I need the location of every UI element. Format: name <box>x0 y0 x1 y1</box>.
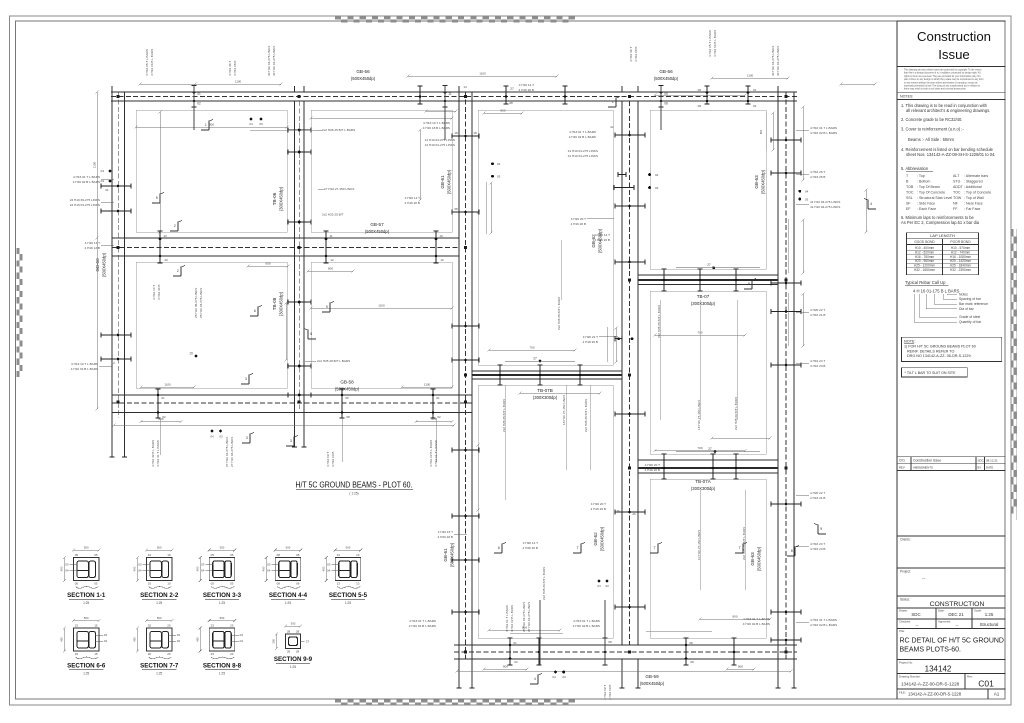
svg-text:4 H16 21 B: 4 H16 21 B <box>810 496 825 500</box>
junction marks at beam crossings <box>116 95 119 98</box>
svg-text:03: 03 <box>177 633 181 637</box>
svg-text:them may result in both a civi: them may result in both a civil claim an… <box>904 88 967 91</box>
beam GB-62 <box>621 101 623 645</box>
svg-text:A1: A1 <box>994 692 1000 697</box>
svg-text:1100: 1100 <box>164 383 171 387</box>
svg-text:27: 27 <box>533 357 537 361</box>
svg-text:4 H16 23 B: 4 H16 23 B <box>810 364 825 368</box>
svg-text:Title:: Title: <box>899 629 905 633</box>
svg-text:SF: SF <box>906 202 911 206</box>
svg-text:27 H10 03-275 LINKS: 27 H10 03-275 LINKS <box>522 602 526 632</box>
svg-text:NF: NF <box>953 202 959 206</box>
svg-text:5. Abbreviation: 5. Abbreviation <box>901 166 929 171</box>
svg-text:FILE:: FILE: <box>899 691 906 695</box>
svg-text:Drawing Number:: Drawing Number: <box>899 675 921 679</box>
dots below GB-59 <box>554 671 557 674</box>
svg-text:4 H16 02 B L BARS: 4 H16 02 B L BARS <box>810 131 837 135</box>
svg-text:3: 3 <box>290 439 292 443</box>
svg-text:04: 04 <box>497 162 501 166</box>
cell E vertical dim <box>485 182 487 234</box>
svg-text:27 H10 27-150 LINKS: 27 H10 27-150 LINKS <box>324 187 354 191</box>
svg-text:Approved:: Approved: <box>938 620 951 624</box>
extra ticks TB-06 <box>288 127 311 132</box>
svg-text:(300X300dp): (300X300dp) <box>533 395 558 400</box>
ticks on GB-61 <box>452 133 479 138</box>
svg-text:500: 500 <box>157 546 162 550</box>
svg-text:H25 - 1200mm: H25 - 1200mm <box>914 264 935 268</box>
dim bracket left of GB-62 <box>606 327 608 362</box>
extra ticks top beam <box>417 86 422 104</box>
svg-text:(500X450dp): (500X450dp) <box>102 252 107 277</box>
svg-text:REV: REV <box>899 466 905 470</box>
svg-text:14: 14 <box>463 85 467 89</box>
beam TB-07A rebar line <box>638 467 778 469</box>
svg-text:expressly permitted by law. Th: expressly permitted by law. The doing of… <box>904 85 981 88</box>
svg-text:H16 - 760mm: H16 - 760mm <box>915 255 935 259</box>
svg-text:9: 9 <box>326 305 328 309</box>
svg-text:4 H16 01 T L BARS: 4 H16 01 T L BARS <box>409 619 436 623</box>
beam GB-58 bottom left block <box>112 394 472 396</box>
svg-text:02: 02 <box>437 415 441 419</box>
svg-text:9: 9 <box>820 527 822 531</box>
svg-text:4 H16 32 B L BARS: 4 H16 32 B L BARS <box>151 440 155 467</box>
svg-text:SECTION 4-4: SECTION 4-4 <box>269 592 308 599</box>
svg-text:04: 04 <box>327 569 331 573</box>
svg-text:27: 27 <box>708 447 712 451</box>
svg-text:4 H16 02 B L BARS: 4 H16 02 B L BARS <box>73 180 100 184</box>
svg-text:27 H10 04-275 LINKS: 27 H10 04-275 LINKS <box>225 437 229 467</box>
svg-text:(300X450dp): (300X450dp) <box>279 186 284 211</box>
svg-text:H10 - 570mm: H10 - 570mm <box>951 246 971 250</box>
svg-text:450: 450 <box>195 566 199 571</box>
svg-text:500: 500 <box>220 616 225 620</box>
svg-text:28: 28 <box>287 649 291 653</box>
svg-text:500: 500 <box>84 546 89 550</box>
svg-text:4 H16 13 T: 4 H16 13 T <box>85 241 100 245</box>
svg-text:1:25: 1:25 <box>219 601 225 605</box>
svg-text:: Top of Concrete: : Top of Concrete <box>964 191 991 195</box>
svg-text:3: 3 <box>246 436 248 440</box>
NOTE box <box>902 337 1002 361</box>
svg-text:GB-63: GB-63 <box>750 552 755 566</box>
svg-text:18: 18 <box>473 131 477 135</box>
beam TB-07 rebar line <box>638 279 778 281</box>
svg-text:08: 08 <box>608 640 612 644</box>
svg-text:18: 18 <box>454 131 458 135</box>
svg-text:NOTE:: NOTE: <box>904 340 916 344</box>
svg-text:32 H10 04-275 LINKS: 32 H10 04-275 LINKS <box>776 46 780 76</box>
svg-text:02: 02 <box>753 104 757 108</box>
SECTION 6-6 <box>73 628 99 651</box>
svg-text:12: 12 <box>440 258 444 262</box>
svg-text:: Top of Wall: : Top of Wall <box>964 196 984 200</box>
svg-text:4 H16 06 B L BARS: 4 H16 06 B L BARS <box>713 30 717 57</box>
svg-text:1) FOR H/T 5C GROUND BEAMS PLO: 1) FOR H/T 5C GROUND BEAMS PLOT 60 <box>904 345 976 349</box>
svg-text:4 H16 36 T: 4 H16 36 T <box>228 61 232 76</box>
svg-text:AMENDMENTS: AMENDMENTS <box>913 466 933 470</box>
svg-text:Notes: Notes <box>959 293 968 297</box>
svg-text:6: 6 <box>498 546 500 550</box>
svg-text:20: 20 <box>167 652 171 656</box>
svg-text:04: 04 <box>201 569 205 573</box>
cell top-left boundary <box>136 110 287 232</box>
svg-text:BEAMS PLOTS-60.: BEAMS PLOTS-60. <box>900 647 962 654</box>
svg-text:: Additional: : Additional <box>964 185 982 189</box>
svg-text:(500X450dp): (500X450dp) <box>654 76 679 81</box>
svg-text:SECTION 6-6: SECTION 6-6 <box>67 663 106 670</box>
svg-text:08: 08 <box>509 101 513 105</box>
svg-text:Project No:: Project No: <box>899 661 913 665</box>
svg-text:(500X450dp): (500X450dp) <box>640 681 665 686</box>
svg-text:4 H16 20 T: 4 H16 20 T <box>591 502 606 506</box>
title row <box>897 628 1006 630</box>
svg-text:: Side Face: : Side Face <box>917 202 935 206</box>
cell right-upper-left boundary <box>478 110 613 365</box>
revision rows <box>897 456 1006 458</box>
svg-text:134142-A-ZZ-00-DR-S-1228: 134142-A-ZZ-00-DR-S-1228 <box>901 682 960 687</box>
svg-text:Bar mark reference: Bar mark reference <box>959 302 988 306</box>
svg-text:134142-A-ZZ-00-DR-S-1228: 134142-A-ZZ-00-DR-S-1228 <box>908 692 962 697</box>
svg-text:600: 600 <box>265 262 270 266</box>
svg-text:450: 450 <box>59 637 63 642</box>
svg-text:: Structural Slab Level: : Structural Slab Level <box>917 196 952 200</box>
svg-text:02: 02 <box>610 125 614 129</box>
svg-text:03: 03 <box>655 186 659 190</box>
drawing number row <box>897 673 1006 675</box>
svg-text:Construction Issue: Construction Issue <box>913 459 941 463</box>
svg-text:03: 03 <box>138 563 142 567</box>
svg-text:DATE: DATE <box>986 466 993 470</box>
svg-text:04: 04 <box>210 435 214 439</box>
svg-text:11: 11 <box>329 234 332 238</box>
svg-text:4 H16 09 B: 4 H16 09 B <box>331 452 335 467</box>
svg-text:EF: EF <box>906 207 911 211</box>
svg-text:20: 20 <box>148 652 152 656</box>
svg-text:04: 04 <box>655 173 659 177</box>
svg-text:Grade of steel: Grade of steel <box>959 315 981 319</box>
svg-text:26: 26 <box>616 509 620 513</box>
svg-text:TOB: TOB <box>906 185 914 189</box>
svg-text:04: 04 <box>138 569 142 573</box>
bottom dimension line GB-58 <box>114 424 454 426</box>
svg-text:Spacing of bar: Spacing of bar <box>959 297 982 301</box>
svg-text:4 H16 01 T L BARS: 4 H16 01 T L BARS <box>73 175 100 179</box>
bar callout ticks on beams <box>191 86 196 108</box>
cell right-lower-left boundary <box>478 385 613 638</box>
SECTION 3-3 <box>209 558 235 581</box>
svg-text:4 H16 02 B L BARS: 4 H16 02 B L BARS <box>510 605 514 632</box>
SECTION 7-7 <box>146 628 172 651</box>
svg-text:28: 28 <box>296 630 300 634</box>
svg-text:08: 08 <box>277 581 281 585</box>
cell bottom-mid boundary <box>311 262 452 388</box>
left dimension lines <box>96 92 98 238</box>
svg-text:Beams :- All Side : 50mm: Beams :- All Side : 50mm <box>908 137 955 142</box>
svg-text:2. Concrete grade to be RC32/4: 2. Concrete grade to be RC32/40. <box>901 117 962 122</box>
title block frame <box>896 21 898 699</box>
svg-text:1100: 1100 <box>93 161 97 168</box>
svg-text:08.12.21: 08.12.21 <box>986 459 998 463</box>
svg-text:03: 03 <box>267 563 271 567</box>
svg-text:ALT: ALT <box>953 174 960 178</box>
svg-text:03: 03 <box>104 633 108 637</box>
svg-text:500: 500 <box>220 546 225 550</box>
svg-text:H32 - 2350mm: H32 - 2350mm <box>950 268 971 272</box>
svg-text:05: 05 <box>75 581 79 585</box>
svg-text:TB-07: TB-07 <box>697 294 710 299</box>
svg-text:700: 700 <box>697 446 702 450</box>
svg-text:2: 2 <box>174 224 176 228</box>
svg-text:32 H10 04-275 LINKS: 32 H10 04-275 LINKS <box>272 46 276 76</box>
svg-text:H25 - 1840mm: H25 - 1840mm <box>950 264 971 268</box>
svg-text:Status:: Status: <box>900 598 910 602</box>
svg-text:450: 450 <box>195 637 199 642</box>
svg-text:41 H10 03-275 LINKS: 41 H10 03-275 LINKS <box>568 154 598 158</box>
svg-text:19: 19 <box>439 234 443 238</box>
svg-text:T: T <box>739 546 741 550</box>
svg-text:08: 08 <box>698 88 702 92</box>
svg-text:GOOD BOND: GOOD BOND <box>914 240 935 244</box>
file row <box>897 688 1006 690</box>
svg-text:15: 15 <box>94 652 98 656</box>
svg-text:01: 01 <box>513 641 517 645</box>
dims near V3 top <box>484 112 522 114</box>
ticks GB-57 <box>157 231 162 263</box>
svg-text:4 H16 13 B: 4 H16 13 B <box>85 246 100 250</box>
svg-text:450: 450 <box>261 566 265 571</box>
svg-text:NOTES:: NOTES: <box>900 95 913 99</box>
svg-text:: Staggered: : Staggered <box>964 180 983 184</box>
svg-text:part of them or any design to: part of them or any design to which they… <box>904 78 984 81</box>
svg-text:4 H26 20 B: 4 H26 20 B <box>523 546 538 550</box>
svg-text:(300X300dp): (300X300dp) <box>691 301 716 306</box>
border checker strip <box>335 17 341 20</box>
svg-text:4 H16 30 B: 4 H16 30 B <box>157 285 161 300</box>
svg-text:(500X450dp): (500X450dp) <box>600 526 605 551</box>
beam GB-60 left edge <box>111 92 113 418</box>
svg-text:2x2 H25 25 B/T L BARS: 2x2 H25 25 B/T L BARS <box>322 128 355 132</box>
ticks on GB-62 <box>615 203 645 208</box>
svg-text:41 H10 04-275 LINKS: 41 H10 04-275 LINKS <box>425 143 455 147</box>
svg-text:450: 450 <box>132 566 136 571</box>
svg-text:As Per EC 2, Compression lap.5: As Per EC 2, Compression lap.51 x bar di… <box>901 220 980 225</box>
svg-text:GB-56: GB-56 <box>356 69 370 74</box>
svg-text:2x2 H25 25 B/T L BARS: 2x2 H25 25 B/T L BARS <box>502 399 506 432</box>
svg-text:13: 13 <box>337 581 341 585</box>
svg-text:04: 04 <box>249 122 253 126</box>
svg-text:4 H20 22 T: 4 H20 22 T <box>810 308 825 312</box>
svg-text:2x2 H25 26 B/T L BARS: 2x2 H25 26 B/T L BARS <box>734 397 738 430</box>
svg-text:05: 05 <box>664 92 668 96</box>
svg-text:08: 08 <box>689 641 693 645</box>
svg-text:4 H16 24 T: 4 H16 24 T <box>810 359 825 363</box>
svg-text:GB-59: GB-59 <box>645 674 659 679</box>
svg-text:08: 08 <box>277 553 281 557</box>
svg-text:4 H16 01 T L BARS: 4 H16 01 T L BARS <box>810 618 837 622</box>
beam extension lines below right block <box>458 659 460 688</box>
svg-text:13: 13 <box>111 361 115 365</box>
cell E dots <box>491 162 494 165</box>
svg-text:27: 27 <box>306 640 310 644</box>
project box <box>897 567 1006 569</box>
svg-text:SECTION 1-1: SECTION 1-1 <box>67 592 106 599</box>
cell right-mid boundary <box>650 291 766 454</box>
svg-text:08: 08 <box>346 415 350 419</box>
ticks GB-59 <box>507 638 512 665</box>
svg-text:1100: 1100 <box>378 304 385 308</box>
svg-text:800: 800 <box>738 665 743 669</box>
svg-text:GB-62: GB-62 <box>593 532 598 546</box>
svg-text:1:25: 1:25 <box>219 672 225 676</box>
svg-text:4 H16 01 T L BARS: 4 H16 01 T L BARS <box>505 605 509 632</box>
svg-text:SDC: SDC <box>911 612 920 617</box>
svg-text:04: 04 <box>267 569 271 573</box>
svg-text:4: 4 <box>870 202 872 206</box>
svg-text:1:25: 1:25 <box>156 672 162 676</box>
svg-text:04: 04 <box>552 675 556 679</box>
ticks top beam right <box>704 86 709 104</box>
svg-text:01: 01 <box>753 88 757 92</box>
beam GB-57 middle left block <box>112 237 459 239</box>
svg-text:41 H10 03-275 LINKS: 41 H10 03-275 LINKS <box>810 200 840 204</box>
svg-text:04: 04 <box>177 639 181 643</box>
svg-text:H12 - 740mm: H12 - 740mm <box>951 250 971 254</box>
svg-text:: Top: : Top <box>917 174 925 178</box>
svg-text:05: 05 <box>94 553 98 557</box>
svg-text:SECTION 8-8: SECTION 8-8 <box>203 663 242 670</box>
svg-text:13: 13 <box>337 553 341 557</box>
svg-text:05: 05 <box>211 581 215 585</box>
border checker strip <box>1011 229 1014 236</box>
svg-text:300: 300 <box>272 638 276 643</box>
svg-text:ADDT: ADDT <box>953 185 964 189</box>
svg-text:300: 300 <box>291 622 296 626</box>
svg-text:04: 04 <box>104 639 108 643</box>
svg-text:08: 08 <box>454 207 458 211</box>
beam extension lines below left block <box>111 409 113 457</box>
svg-text:10: 10 <box>148 553 152 557</box>
NOTES header <box>897 99 1006 101</box>
beam TB-06/TB-08 middle of left block <box>294 101 296 409</box>
svg-text:10: 10 <box>167 553 171 557</box>
extra ticks GB-63 <box>771 637 801 642</box>
svg-text:1100: 1100 <box>235 80 242 84</box>
svg-text:03: 03 <box>805 198 809 202</box>
svg-text:04: 04 <box>240 639 244 643</box>
svg-text:GB-61: GB-61 <box>443 548 448 562</box>
svg-text:03: 03 <box>219 435 223 439</box>
svg-text:4 H16 02 B L BARS: 4 H16 02 B L BARS <box>573 624 600 628</box>
svg-text:TB-07B: TB-07B <box>537 388 553 393</box>
svg-text:19: 19 <box>189 352 193 356</box>
svg-text:02: 02 <box>514 660 518 664</box>
svg-text:GB-63: GB-63 <box>754 175 759 189</box>
svg-text:134142: 134142 <box>925 665 952 674</box>
svg-text:SSL: SSL <box>906 196 913 200</box>
construction issue header <box>897 20 1006 22</box>
svg-text:T: T <box>577 546 579 550</box>
svg-text:4 H16 20 B: 4 H16 20 B <box>645 468 660 472</box>
svg-text:SECTION 9-9: SECTION 9-9 <box>274 656 313 663</box>
link leader lines in cells <box>504 385 506 500</box>
svg-text:4 H16 09 B: 4 H16 09 B <box>608 685 612 700</box>
svg-text:18 H10 27-150 LINKS: 18 H10 27-150 LINKS <box>697 400 701 430</box>
svg-text:27: 27 <box>510 87 514 91</box>
svg-text:1:25: 1:25 <box>156 601 162 605</box>
svg-text:STG: STG <box>953 180 961 184</box>
svg-text:4 H16 25 B: 4 H16 25 B <box>810 175 825 179</box>
svg-text:TOC: TOC <box>953 191 961 195</box>
beam GB-59 bottom <box>454 644 797 646</box>
svg-text:Project:: Project: <box>900 570 911 574</box>
cell right-bottom boundary <box>650 479 766 638</box>
svg-text:4 H16 01 T L BARS: 4 H16 01 T L BARS <box>573 619 600 623</box>
svg-text:(500X450dp): (500X450dp) <box>365 229 390 234</box>
svg-text:01: 01 <box>436 396 440 400</box>
right dimension line <box>802 107 804 180</box>
svg-text:Date:: Date: <box>938 609 945 613</box>
svg-text:4 H16 15 T: 4 H16 15 T <box>438 530 453 534</box>
svg-text:4 H16 08 B: 4 H16 08 B <box>634 47 638 62</box>
svg-text:1100: 1100 <box>479 72 486 76</box>
svg-text:8: 8 <box>791 549 793 553</box>
svg-text:GB-57: GB-57 <box>370 222 384 227</box>
SECTION 4-4 <box>275 558 301 581</box>
svg-text:04: 04 <box>805 190 809 194</box>
svg-text:SECTION 5-5: SECTION 5-5 <box>329 592 368 599</box>
svg-text:4 H16 09 T: 4 H16 09 T <box>326 452 330 467</box>
beam TB-07B <box>472 370 622 372</box>
svg-text:800: 800 <box>209 123 214 127</box>
svg-text:02: 02 <box>162 415 166 419</box>
svg-text:4 H20 22 T: 4 H20 22 T <box>810 491 825 495</box>
svg-text:6: 6 <box>254 309 256 313</box>
svg-text:2x2 H25 25 B/T: 2x2 H25 25 B/T <box>322 213 344 217</box>
svg-text:4 H16 10 T: 4 H16 10 T <box>152 285 156 300</box>
svg-text:1: 1 <box>205 123 207 127</box>
svg-text:( 1:25): ( 1:25) <box>349 492 358 496</box>
svg-text:4 H18 20 B: 4 H18 20 B <box>583 340 598 344</box>
svg-text:14: 14 <box>476 211 480 215</box>
svg-text:(500X450dp): (500X450dp) <box>335 386 360 391</box>
svg-text:C01: C01 <box>978 679 994 689</box>
svg-text:TB-08: TB-08 <box>272 297 277 310</box>
lap length table <box>907 233 979 275</box>
svg-text:600: 600 <box>328 267 333 271</box>
svg-text:BY: BY <box>978 466 982 470</box>
svg-text:22 H10 03-275 LINKS: 22 H10 03-275 LINKS <box>70 203 100 207</box>
svg-text:8: 8 <box>748 282 750 286</box>
svg-text:T: T <box>654 546 656 550</box>
svg-text:all relevant architect's & eng: all relevant architect's & engineering d… <box>906 108 990 113</box>
svg-text:4 H16 31 T L BARS: 4 H16 31 T L BARS <box>156 440 160 467</box>
svg-text:5: 5 <box>156 196 158 200</box>
link extent lines <box>765 112 767 150</box>
svg-text:H32 - 1650mm: H32 - 1650mm <box>914 268 935 272</box>
svg-text:20: 20 <box>148 624 152 628</box>
svg-text:04: 04 <box>101 169 105 173</box>
svg-text:13: 13 <box>356 553 360 557</box>
svg-text:Construction: Construction <box>917 29 991 44</box>
SECTION 9-9 <box>286 634 301 649</box>
svg-text:03: 03 <box>327 563 331 567</box>
svg-text:4 H16 02 B L BARS: 4 H16 02 B L BARS <box>409 624 436 628</box>
svg-text:H20 - 960mm: H20 - 960mm <box>915 259 935 263</box>
tilt bar note box <box>902 368 968 377</box>
svg-text:sheet Nos. 134142-A-ZZ-08-SH-S: sheet Nos. 134142-A-ZZ-08-SH-S-1228/01 t… <box>906 152 995 157</box>
svg-text:4 H16 08 B: 4 H16 08 B <box>233 61 237 76</box>
svg-text:03: 03 <box>65 563 69 567</box>
